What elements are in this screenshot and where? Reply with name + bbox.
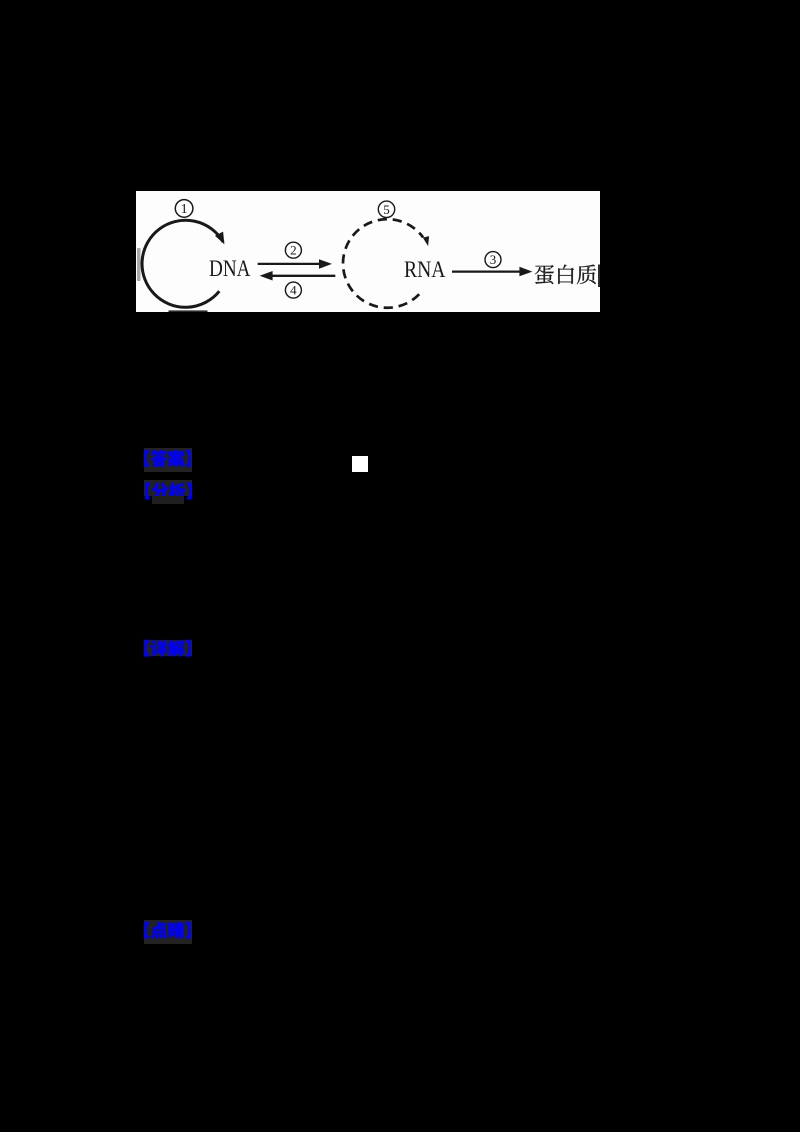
blue answer label 【答案】 (130, 445, 196, 471)
svg-text:DNA: DNA (209, 256, 251, 282)
protein label (dan bai zhi) (535, 265, 596, 285)
svg-text:3: 3 (490, 252, 497, 267)
gray halo behind key-point label (144, 920, 192, 944)
blue analysis label 【分析】 (131, 478, 197, 504)
dashed circular self-arrow (RNA replication) (343, 219, 423, 308)
gray halo behind answer label (144, 448, 192, 472)
white diagram panel: DNA-RNA-protein central dogma (136, 191, 600, 312)
arrow 4: RNA to DNA (reverse transcription) (269, 275, 335, 277)
gray halo behind analysis label (144, 480, 193, 496)
gray artifact tail under analysis label (152, 496, 184, 504)
blue key-point label 【点睛】 (130, 917, 196, 943)
blue explanation label 【详解】 (130, 635, 196, 661)
gray halo behind explanation label (144, 640, 192, 656)
circled number 5 (378, 201, 394, 217)
solid circular self-arrow (DNA replication) (142, 220, 223, 307)
circled number 1 (175, 200, 193, 218)
svg-text:1: 1 (181, 202, 188, 217)
arrow 2: DNA to RNA (transcription) (258, 263, 322, 265)
circled number 2 (285, 242, 301, 258)
svg-text:2: 2 (290, 243, 297, 258)
svg-text:4: 4 (290, 283, 297, 298)
svg-text:RNA: RNA (404, 257, 446, 283)
white square placeholder (352, 456, 368, 472)
circled number 3 (485, 252, 501, 268)
circled number 4 (285, 282, 301, 298)
clipped glyph bar at right edge (598, 265, 600, 288)
svg-text:5: 5 (383, 202, 390, 217)
dark smudge at bottom edge (169, 310, 208, 312)
gray notch artifact at left edge (137, 248, 141, 281)
arrow 3: RNA to protein (translation) (452, 271, 523, 273)
